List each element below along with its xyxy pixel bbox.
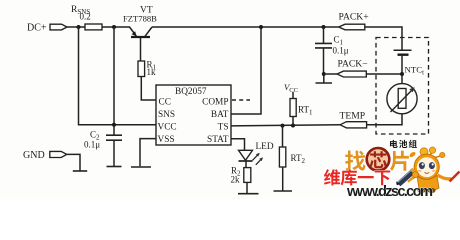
wire node B vertical drop [113, 27, 115, 125]
node junction right of RSNS [112, 25, 116, 29]
svg-text:BAT: BAT [211, 110, 229, 120]
right arm with red tool [438, 175, 452, 179]
battery cell [394, 50, 412, 74]
resistor R2 2k [231, 166, 251, 194]
wire STAT to LED [231, 139, 245, 151]
ground below PACK- junction [323, 74, 325, 83]
node junction battery minus / NTC [400, 72, 404, 76]
transistor VT FZT788B [123, 6, 157, 62]
wire collector to PACK+ rail [152, 26, 339, 28]
node junction PACK- [322, 72, 326, 76]
resistor RT2 [279, 126, 305, 191]
wire COMP dashed stub [232, 99, 250, 101]
wire VSS to ground [140, 139, 156, 167]
svg-text:FZT788B: FZT788B [123, 14, 157, 24]
wire TS to TEMP [231, 125, 340, 126]
capacitor C1 0.1u [315, 27, 349, 74]
svg-text:2k: 2k [231, 175, 241, 185]
head [414, 154, 439, 179]
svg-text:GND: GND [23, 150, 45, 161]
node junction RT1 [291, 124, 295, 128]
ground below GND [73, 170, 87, 172]
wire DC+ to RSNS [67, 26, 85, 28]
svg-text:BQ2057: BQ2057 [175, 87, 207, 97]
IC U1 BQ2057 charge controller [156, 85, 231, 145]
LED diode [239, 142, 274, 165]
resistor RT1 [290, 92, 313, 126]
wire LED to R2 [245, 161, 247, 168]
resistor RSNS 0.2 [71, 5, 102, 30]
connector TEMP [340, 111, 367, 128]
svg-text:TEMP: TEMP [340, 111, 366, 122]
node junction RT2 [281, 124, 285, 128]
resistor R1 1k [138, 60, 157, 78]
svg-text:PACK−: PACK− [338, 59, 368, 70]
svg-text:LED: LED [256, 142, 274, 152]
svg-text:COMP: COMP [202, 97, 228, 107]
svg-text:CC: CC [159, 97, 171, 107]
connector PACK+ [339, 12, 369, 30]
svg-text:0.1μ: 0.1μ [333, 46, 349, 56]
wire PACK- to battery minus node [366, 73, 402, 75]
svg-text:TS: TS [218, 122, 229, 132]
watermark red text: weiku yixia [324, 169, 390, 185]
watermark gold text: zhao xin pian [345, 148, 409, 171]
connector PACK- [337, 59, 368, 78]
capacitor C2 0.1u [84, 125, 122, 166]
wire GND to ground [67, 154, 80, 170]
connector DC+ [27, 23, 67, 34]
svg-text:0.2: 0.2 [80, 12, 91, 22]
wire BAT to rail [231, 27, 261, 114]
svg-text:VSS: VSS [158, 135, 175, 145]
node junction C1 top [322, 25, 326, 29]
svg-text:PACK+: PACK+ [339, 12, 369, 23]
ground below VSS [131, 166, 151, 168]
body [417, 176, 439, 192]
feet [418, 188, 426, 193]
svg-text:1k: 1k [147, 67, 157, 77]
wire R1 to CC pin [141, 77, 156, 101]
watermark mascot [396, 147, 460, 193]
svg-text:www.dzsc.com: www.dzsc.com [346, 184, 433, 199]
wire PACK- junction to connector [326, 73, 337, 75]
node junction left of RSNS [77, 25, 81, 29]
svg-text:0.1μ: 0.1μ [84, 140, 100, 150]
wire node A vertical drop to VCC row [79, 27, 115, 125]
connector GND [23, 150, 67, 161]
ground below R2 [238, 193, 259, 195]
ground below C2 [107, 166, 122, 168]
eyes [419, 162, 425, 169]
svg-text:STAT: STAT [207, 135, 229, 145]
crown stalks [425, 153, 441, 159]
battery pack dashed box [376, 38, 429, 135]
label battery pack (dianchizu) [390, 140, 398, 148]
cheeks and mouth [418, 170, 422, 172]
left arm holding chip pen [408, 176, 417, 182]
wire RSNS to VT emitter [102, 26, 130, 28]
thermistor NTCt [387, 74, 417, 114]
svg-text:SNS: SNS [158, 110, 175, 120]
svg-text:DC+: DC+ [27, 23, 47, 34]
wire TEMP to NTC bottom [367, 114, 402, 125]
wire PACK+ to battery pack [365, 27, 402, 50]
node junction BAT rail [259, 25, 263, 29]
node junction at C2 [112, 123, 116, 127]
svg-text:VCC: VCC [158, 122, 177, 132]
ground below RT2 [274, 190, 293, 192]
wire to VCC pin [114, 124, 156, 126]
